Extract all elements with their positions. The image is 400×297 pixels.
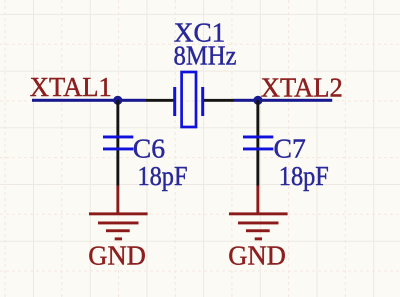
capacitor C6 pin/wire vertical [116, 100, 119, 186]
capacitor C7 bottom plate [243, 148, 273, 151]
crystal XC1 right plate [201, 87, 204, 116]
capacitor C7 top plate [243, 136, 273, 139]
wire XTAL2 net (right horizontal) [233, 99, 332, 102]
svg-text:GND: GND [228, 241, 285, 271]
capacitor C7 pin/wire vertical [256, 100, 259, 186]
wire XTAL1 net (left horizontal) [32, 99, 146, 102]
capacitor C6 top plate [103, 136, 133, 139]
crystal XC1 pin 1 (left) [146, 99, 174, 102]
svg-text:GND: GND [88, 241, 146, 271]
svg-text:XTAL2: XTAL2 [261, 73, 343, 103]
junction node XTAL1/C6 [113, 96, 122, 105]
crystal XC1 body [182, 72, 196, 127]
capacitor C6 bottom plate [103, 148, 133, 151]
junction node XTAL2/C7 [253, 96, 262, 105]
svg-text:18pF: 18pF [138, 161, 188, 191]
svg-text:18pF: 18pF [279, 161, 329, 191]
crystal XC1 left plate [173, 87, 176, 116]
crystal XC1 pin 2 (right) [204, 99, 234, 102]
svg-text:C7: C7 [274, 133, 306, 163]
ground GND (right) [229, 186, 288, 241]
ground GND (left) [89, 186, 148, 241]
svg-text:8MHz: 8MHz [174, 41, 237, 71]
svg-text:C6: C6 [133, 133, 165, 163]
svg-text:XTAL1: XTAL1 [30, 72, 112, 102]
